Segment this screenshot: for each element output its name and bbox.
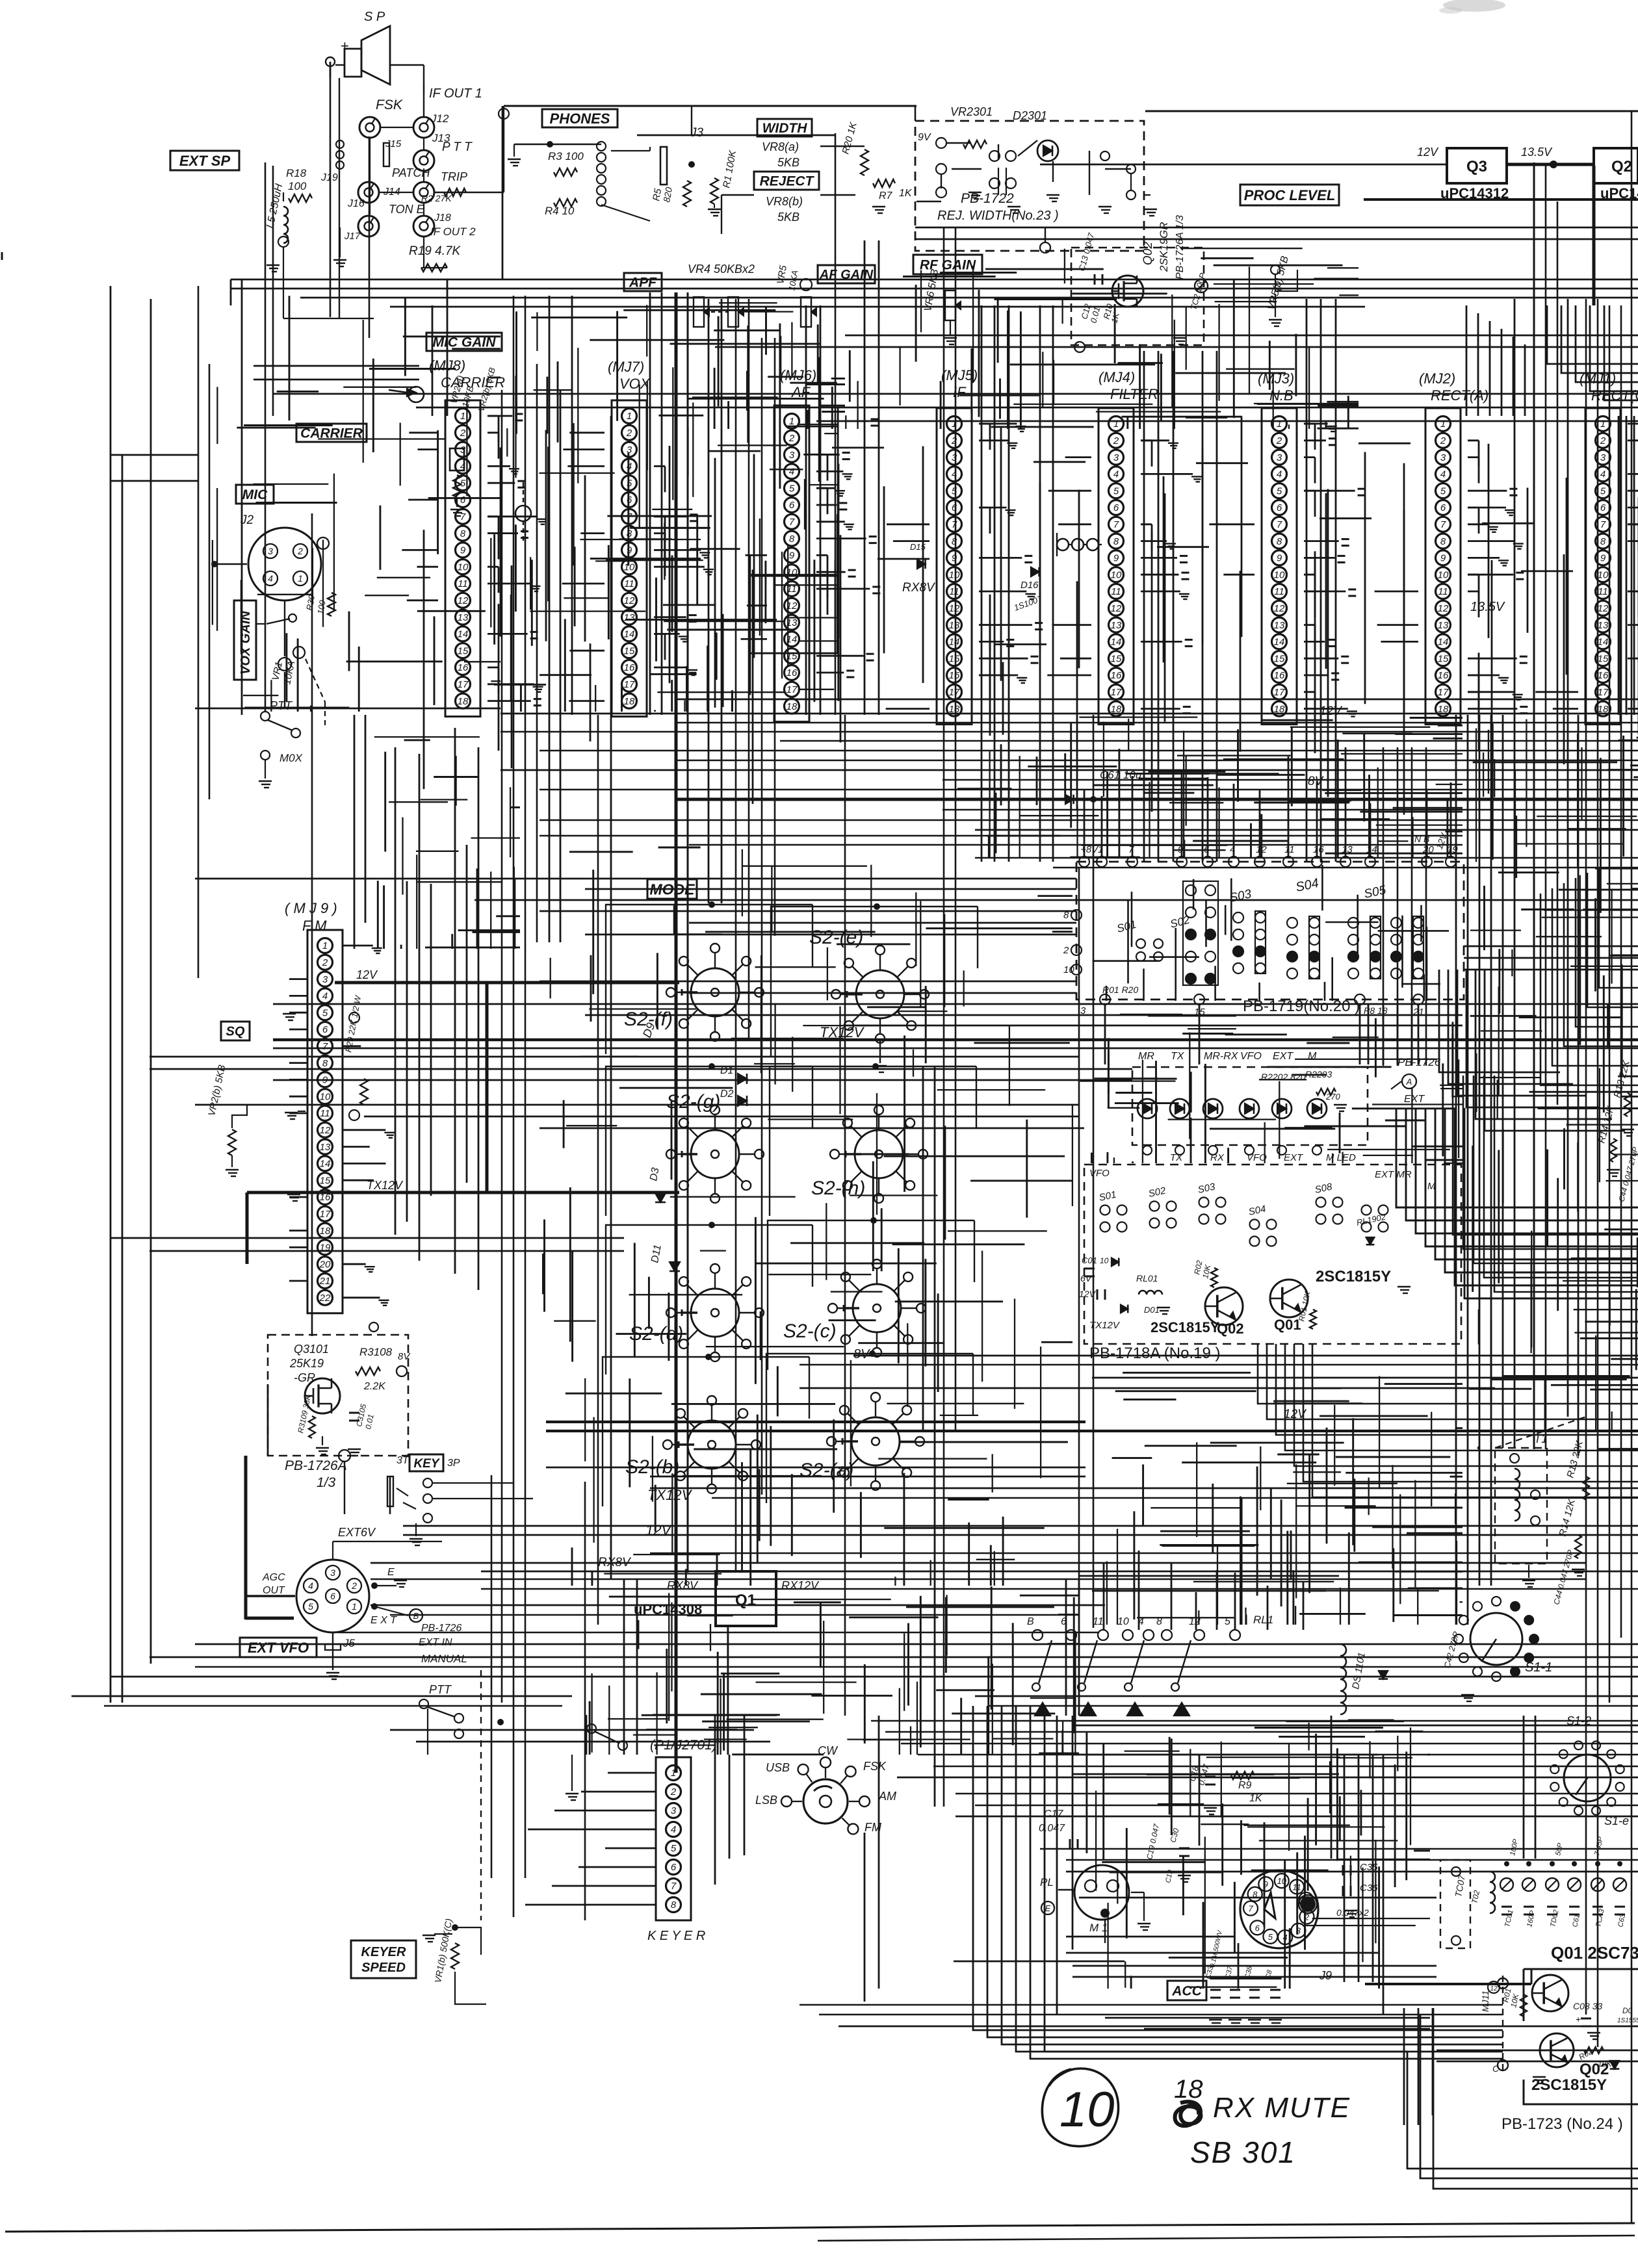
svg-text:F M: F M (302, 918, 327, 934)
svg-text:S P: S P (364, 10, 385, 24)
svg-text:E: E (1045, 1903, 1051, 1913)
svg-text:MIC: MIC (242, 487, 268, 502)
svg-text:2.2K: 2.2K (363, 1381, 386, 1392)
svg-text:6: 6 (330, 1591, 335, 1601)
svg-text:1K: 1K (899, 188, 913, 199)
svg-text:14: 14 (949, 637, 960, 648)
svg-text:8: 8 (627, 528, 632, 539)
svg-text:18: 18 (624, 696, 635, 707)
svg-text:11: 11 (1274, 586, 1284, 597)
svg-text:5: 5 (1600, 485, 1606, 496)
svg-text:12V: 12V (1079, 1289, 1097, 1299)
svg-text:4: 4 (1440, 469, 1446, 480)
svg-text:10: 10 (1598, 569, 1609, 580)
svg-text:10: 10 (1059, 2082, 1115, 2137)
svg-text:Q2: Q2 (1611, 158, 1632, 175)
svg-text:9: 9 (952, 553, 957, 564)
svg-text:PTT: PTT (429, 1683, 452, 1696)
svg-text:J9: J9 (1319, 1969, 1332, 1982)
svg-text:OUT: OUT (263, 1585, 285, 1596)
svg-text:M: M (1308, 1051, 1317, 1062)
svg-text:4: 4 (789, 467, 794, 478)
svg-text:C61 10u: C61 10u (1100, 769, 1142, 781)
svg-text:PB-1726A: PB-1726A (285, 1458, 347, 1473)
svg-text:12: 12 (1274, 603, 1285, 614)
svg-text:7: 7 (1277, 519, 1282, 530)
svg-text:1: 1 (460, 411, 465, 422)
svg-text:1: 1 (1600, 419, 1605, 430)
svg-text:6: 6 (460, 495, 466, 506)
svg-text:Q3: Q3 (1466, 158, 1487, 175)
svg-text:18: 18 (949, 704, 960, 715)
svg-text:5: 5 (308, 1601, 313, 1612)
svg-text:16: 16 (1274, 670, 1285, 681)
svg-text:11: 11 (458, 578, 468, 589)
svg-text:3: 3 (1277, 452, 1282, 463)
svg-text:SB 301: SB 301 (1190, 2135, 1296, 2169)
svg-text:E: E (387, 1567, 395, 1578)
svg-text:6: 6 (322, 1024, 328, 1035)
svg-text:15: 15 (1438, 653, 1449, 664)
svg-text:4: 4 (1600, 469, 1605, 480)
svg-text:C: C (1492, 2063, 1500, 2074)
svg-text:9: 9 (460, 545, 466, 556)
svg-text:3: 3 (627, 445, 632, 456)
svg-text:B: B (1027, 1616, 1034, 1627)
svg-text:11: 11 (949, 586, 959, 597)
svg-text:ACC: ACC (1171, 1984, 1202, 1999)
svg-text:13: 13 (624, 612, 635, 623)
svg-text:11: 11 (1284, 844, 1295, 855)
svg-text:PROC LEVEL: PROC LEVEL (1244, 187, 1336, 203)
svg-text:B: B (413, 1611, 419, 1621)
svg-text:3: 3 (1113, 452, 1119, 463)
svg-text:8: 8 (322, 1058, 328, 1069)
svg-text:10: 10 (1111, 569, 1122, 580)
svg-text:12V: 12V (645, 1522, 672, 1538)
svg-text:9: 9 (627, 545, 632, 556)
svg-text:1: 1 (298, 573, 303, 584)
svg-text:10: 10 (320, 1091, 331, 1102)
svg-text:M LED: M LED (1326, 1152, 1356, 1163)
svg-text:18: 18 (786, 701, 798, 712)
svg-text:KEYER: KEYER (361, 1945, 406, 1959)
svg-text:10: 10 (1117, 1616, 1129, 1627)
svg-text:3: 3 (671, 1805, 677, 1816)
svg-text:4: 4 (308, 1580, 313, 1591)
svg-text:3: 3 (789, 450, 795, 461)
svg-text:100: 100 (288, 180, 307, 192)
svg-text:4: 4 (322, 991, 328, 1002)
svg-text:10: 10 (1100, 1256, 1109, 1265)
svg-text:REJECT: REJECT (760, 174, 815, 189)
svg-text:13.5V: 13.5V (1521, 146, 1553, 159)
svg-text:1/3: 1/3 (317, 1475, 336, 1490)
svg-text:3: 3 (1440, 452, 1446, 463)
svg-text:RF GAIN: RF GAIN (920, 258, 976, 273)
svg-text:Q02: Q02 (1579, 2061, 1609, 2078)
svg-text:(MJ4): (MJ4) (1098, 369, 1135, 385)
svg-text:13: 13 (1111, 620, 1122, 631)
svg-text:17: 17 (320, 1209, 331, 1220)
svg-text:R7: R7 (879, 190, 893, 201)
svg-text:13: 13 (458, 612, 469, 623)
svg-text:Q01 2SC735Y: Q01 2SC735Y (1551, 1943, 1638, 1963)
svg-text:17: 17 (624, 679, 635, 690)
svg-text:2SC1815Y: 2SC1815Y (1531, 2076, 1607, 2094)
svg-text:14: 14 (1438, 637, 1449, 648)
svg-text:14: 14 (458, 629, 469, 640)
svg-text:6: 6 (789, 500, 795, 511)
svg-text:IF OUT 2: IF OUT 2 (430, 226, 476, 238)
svg-text:22: 22 (319, 1293, 331, 1304)
svg-text:6: 6 (627, 495, 632, 506)
svg-text:12: 12 (624, 595, 635, 606)
svg-text:J16: J16 (347, 198, 365, 209)
svg-text:KEY: KEY (413, 1457, 440, 1471)
svg-text:3: 3 (1600, 452, 1606, 463)
svg-text:TON E: TON E (389, 203, 425, 216)
svg-text:5: 5 (460, 478, 466, 489)
svg-text:1: 1 (352, 1601, 357, 1612)
svg-text:AGC: AGC (262, 1572, 285, 1583)
svg-text:11: 11 (320, 1108, 330, 1119)
svg-text:1: 1 (952, 419, 957, 430)
svg-text:AM: AM (878, 1790, 896, 1803)
svg-text:11: 11 (1598, 586, 1608, 597)
svg-text:WIDTH: WIDTH (762, 121, 808, 136)
svg-text:11: 11 (1111, 586, 1121, 597)
svg-text:PATCH: PATCH (392, 166, 430, 179)
svg-text:1: 1 (322, 940, 328, 951)
svg-text:12: 12 (320, 1125, 331, 1136)
svg-text:9: 9 (789, 550, 795, 561)
svg-text:IF: IF (953, 384, 967, 400)
svg-text:J19: J19 (320, 172, 338, 183)
svg-text:RX12V: RX12V (781, 1579, 820, 1592)
svg-text:TX: TX (1170, 1152, 1183, 1163)
svg-text:2: 2 (1600, 435, 1606, 446)
svg-text:2: 2 (670, 1786, 677, 1798)
svg-text:A: A (1406, 1077, 1412, 1087)
svg-text:D1: D1 (720, 1065, 733, 1076)
svg-text:REJ. WIDTH(No.23 ): REJ. WIDTH(No.23 ) (937, 209, 1059, 223)
svg-text:1: 1 (1277, 419, 1282, 430)
svg-text:5: 5 (1277, 485, 1282, 496)
svg-text:12: 12 (1438, 603, 1449, 614)
svg-text:12: 12 (1598, 603, 1609, 614)
svg-text:8V: 8V (853, 1347, 870, 1361)
svg-text:3: 3 (330, 1567, 335, 1578)
svg-text:7: 7 (1113, 519, 1119, 530)
svg-text:4: 4 (1277, 469, 1282, 480)
svg-text:RECT(A): RECT(A) (1431, 387, 1488, 404)
svg-text:6: 6 (1113, 502, 1119, 513)
svg-text:D3: D3 (648, 1167, 661, 1182)
svg-text:17: 17 (786, 684, 798, 695)
svg-text:D01: D01 (1144, 1305, 1160, 1315)
svg-text:9: 9 (1277, 553, 1282, 564)
svg-text:PB-1726: PB-1726 (421, 1623, 461, 1634)
svg-text:MJ11: MJ11 (1480, 1991, 1490, 2012)
svg-text:(P1/J2701): (P1/J2701) (1009, 1754, 1013, 1755)
svg-text:9: 9 (1600, 553, 1606, 564)
svg-text:C01: C01 (1082, 1256, 1097, 1265)
svg-text:0.047: 0.047 (1039, 1823, 1065, 1834)
svg-text:270: 270 (1325, 1092, 1340, 1102)
svg-text:J17: J17 (344, 231, 361, 242)
svg-text:P T T: P T T (442, 140, 473, 154)
svg-text:5: 5 (671, 1843, 677, 1854)
svg-text:12: 12 (949, 603, 960, 614)
svg-text:R3 100: R3 100 (548, 150, 584, 162)
svg-text:6: 6 (1600, 502, 1606, 513)
svg-text:R01 R20: R01 R20 (1102, 985, 1138, 995)
svg-text:IF OUT 1: IF OUT 1 (429, 86, 482, 101)
svg-text:R4 10: R4 10 (545, 205, 575, 217)
svg-text:(MJ2): (MJ2) (1419, 370, 1455, 387)
svg-text:5: 5 (1268, 1932, 1273, 1942)
svg-text:18: 18 (320, 1226, 331, 1237)
svg-text:PB-1718A (No.19 ): PB-1718A (No.19 ) (1089, 1345, 1220, 1362)
svg-text:2: 2 (460, 428, 466, 439)
svg-text:5: 5 (789, 483, 795, 494)
svg-text:RX: RX (1210, 1152, 1225, 1163)
svg-text:(MJ7): (MJ7) (608, 359, 644, 375)
svg-text:D2301: D2301 (1013, 109, 1047, 122)
svg-text:TX: TX (1171, 1051, 1185, 1062)
svg-text:8: 8 (789, 534, 795, 545)
svg-text:SQ: SQ (226, 1025, 245, 1039)
svg-text:VOX: VOX (619, 376, 651, 392)
svg-text:4: 4 (268, 573, 273, 584)
svg-text:MR-RX: MR-RX (1204, 1051, 1239, 1062)
svg-text:21: 21 (319, 1276, 331, 1287)
svg-text:SPEED: SPEED (361, 1961, 406, 1975)
svg-text:J12: J12 (430, 112, 449, 125)
svg-text:5: 5 (627, 478, 632, 489)
svg-text:PB-1723 (No.24 ): PB-1723 (No.24 ) (1501, 2115, 1623, 2133)
svg-text:PL: PL (1040, 1876, 1054, 1888)
svg-text:5KB: 5KB (777, 211, 799, 224)
svg-text:11: 11 (1093, 1616, 1104, 1627)
svg-text:E X T: E X T (370, 1615, 397, 1626)
svg-text:15: 15 (1111, 653, 1122, 664)
svg-text:15: 15 (320, 1175, 331, 1186)
svg-text:5KB: 5KB (777, 156, 799, 169)
svg-text:PHONES: PHONES (550, 110, 610, 127)
svg-text:5: 5 (1440, 485, 1446, 496)
svg-text:3: 3 (460, 445, 466, 456)
svg-text:TRIP: TRIP (441, 170, 467, 183)
svg-text:Q1: Q1 (735, 1591, 756, 1609)
svg-text:18: 18 (1174, 2075, 1203, 2104)
svg-text:VFO: VFO (1247, 1152, 1267, 1163)
svg-text:2: 2 (351, 1580, 357, 1591)
svg-text:18: 18 (1274, 704, 1285, 715)
svg-text:8V: 8V (398, 1351, 411, 1362)
svg-text:3: 3 (322, 974, 328, 985)
svg-text:7: 7 (671, 1881, 677, 1892)
svg-text:( M J 9 ): ( M J 9 ) (285, 900, 337, 916)
svg-text:7: 7 (1440, 519, 1446, 530)
svg-text:EXT6V: EXT6V (338, 1526, 376, 1539)
svg-text:17: 17 (1598, 687, 1609, 698)
svg-text:16: 16 (624, 662, 635, 673)
svg-text:17: 17 (458, 679, 469, 690)
svg-text:16: 16 (458, 662, 469, 673)
svg-text:RL01: RL01 (1136, 1273, 1158, 1283)
svg-text:7: 7 (789, 517, 795, 528)
svg-text:6: 6 (671, 1862, 677, 1873)
svg-text:16: 16 (1438, 670, 1449, 681)
svg-text:18: 18 (1438, 704, 1449, 715)
svg-text:3: 3 (952, 452, 957, 463)
svg-text:6: 6 (1255, 1923, 1260, 1933)
svg-text:4: 4 (952, 469, 957, 480)
svg-text:PTT: PTT (270, 699, 293, 712)
svg-text:15: 15 (949, 653, 960, 664)
svg-text:3P: 3P (447, 1458, 460, 1469)
svg-text:17: 17 (949, 687, 960, 698)
svg-text:12V: 12V (1417, 146, 1439, 159)
svg-text:2SC1815Y: 2SC1815Y (1316, 1268, 1391, 1285)
svg-text:8: 8 (1440, 536, 1446, 547)
svg-text:S1-1: S1-1 (1525, 1660, 1552, 1675)
svg-text:FSK: FSK (376, 97, 403, 112)
svg-text:Q02: Q02 (1217, 1321, 1244, 1337)
svg-text:T1: T1 (1534, 1432, 1548, 1445)
svg-text:Q3101: Q3101 (294, 1343, 329, 1356)
svg-text:8: 8 (671, 1900, 677, 1911)
svg-text:2: 2 (297, 546, 303, 556)
svg-text:12: 12 (1490, 1985, 1498, 1992)
svg-text:EXT: EXT (1284, 1152, 1304, 1163)
svg-text:16: 16 (1111, 670, 1122, 681)
svg-text:VR8(a): VR8(a) (762, 140, 799, 153)
svg-text:15: 15 (624, 645, 635, 656)
svg-text:uPC14312: uPC14312 (1440, 185, 1509, 201)
svg-text:VFO: VFO (1089, 1168, 1110, 1179)
svg-text:1: 1 (1113, 419, 1119, 430)
svg-text:2SK19GR: 2SK19GR (1158, 222, 1170, 272)
svg-text:17: 17 (1274, 687, 1285, 698)
svg-text:EXT: EXT (1404, 1094, 1425, 1105)
svg-text:+: + (1576, 2014, 1581, 2024)
svg-text:5: 5 (1113, 485, 1119, 496)
svg-text:PB-1726A 1/3: PB-1726A 1/3 (1175, 215, 1186, 279)
svg-text:14: 14 (1111, 637, 1122, 648)
svg-text:13: 13 (1438, 620, 1449, 631)
svg-text:9V: 9V (918, 132, 931, 143)
svg-text:C08 33: C08 33 (1573, 2001, 1602, 2011)
svg-text:MANUAL: MANUAL (421, 1653, 467, 1665)
svg-text:K E Y E R: K E Y E R (647, 1929, 705, 1943)
svg-text:6: 6 (952, 502, 957, 513)
svg-text:7: 7 (1600, 519, 1606, 530)
svg-text:2SC1815Y: 2SC1815Y (1150, 1319, 1220, 1335)
svg-text:3: 3 (268, 546, 273, 556)
svg-text:2: 2 (1276, 435, 1282, 446)
svg-text:Q02: Q02 (1141, 242, 1155, 265)
svg-text:(MJ6): (MJ6) (780, 367, 816, 383)
svg-text:8: 8 (460, 528, 466, 539)
svg-text:16: 16 (1313, 844, 1324, 855)
svg-text:18: 18 (458, 696, 469, 707)
svg-text:FILTER: FILTER (1110, 386, 1158, 402)
svg-text:8: 8 (1277, 536, 1282, 547)
svg-text:R19 4.7K: R19 4.7K (409, 244, 461, 258)
svg-text:MR: MR (1138, 1051, 1154, 1062)
svg-text:PB-1722: PB-1722 (961, 191, 1014, 206)
svg-text:8: 8 (1113, 536, 1119, 547)
svg-text:C17: C17 (1044, 1809, 1063, 1820)
svg-text:-GR: -GR (294, 1371, 315, 1384)
svg-text:EXT IN: EXT IN (419, 1637, 452, 1648)
svg-text:14: 14 (1274, 637, 1285, 648)
svg-text:TX12V: TX12V (647, 1487, 693, 1503)
svg-text:16: 16 (949, 670, 960, 681)
svg-text:D2: D2 (720, 1089, 734, 1100)
svg-text:2: 2 (322, 957, 328, 968)
svg-text:2: 2 (1063, 945, 1069, 956)
svg-text:10: 10 (624, 561, 635, 573)
svg-text:TX12V: TX12V (1089, 1320, 1121, 1331)
svg-text:10: 10 (1063, 964, 1074, 975)
svg-text:6V: 6V (1080, 1273, 1093, 1283)
svg-text:7: 7 (952, 519, 957, 530)
svg-text:17: 17 (1111, 687, 1122, 698)
svg-text:6: 6 (1440, 502, 1446, 513)
svg-text:14: 14 (320, 1159, 331, 1170)
svg-text:13: 13 (1598, 620, 1609, 631)
svg-text:J5: J5 (343, 1637, 356, 1649)
svg-text:EXT VFO: EXT VFO (248, 1640, 309, 1656)
svg-text:5: 5 (322, 1007, 328, 1018)
svg-text:2: 2 (788, 433, 795, 444)
svg-text:uPC1430: uPC1430 (1600, 185, 1638, 201)
svg-text:11: 11 (1438, 586, 1448, 597)
svg-text:13: 13 (320, 1142, 331, 1153)
svg-text:14: 14 (1598, 637, 1609, 648)
svg-text:EXT: EXT (1273, 1051, 1293, 1062)
svg-text:R3108: R3108 (359, 1346, 393, 1358)
svg-text:RX8V: RX8V (667, 1579, 699, 1592)
svg-text:VFO: VFO (1240, 1051, 1262, 1062)
svg-text:12V: 12V (1284, 1408, 1307, 1421)
svg-text:J15: J15 (385, 138, 402, 149)
svg-text:D16: D16 (1020, 580, 1039, 591)
svg-text:15: 15 (1598, 653, 1609, 664)
svg-text:1: 1 (671, 1768, 676, 1779)
svg-text:7: 7 (1248, 1904, 1253, 1914)
svg-text:10: 10 (949, 569, 960, 580)
svg-text:4: 4 (671, 1824, 676, 1835)
svg-text:3T: 3T (396, 1455, 409, 1466)
svg-text:8: 8 (1600, 536, 1606, 547)
svg-text:11: 11 (624, 578, 634, 589)
svg-text:8: 8 (952, 536, 957, 547)
svg-text:RX MUTE: RX MUTE (1213, 2092, 1351, 2124)
svg-text:J18: J18 (434, 213, 451, 224)
svg-text:18: 18 (1111, 704, 1122, 715)
svg-text:25K19: 25K19 (289, 1357, 324, 1370)
svg-text:APF: APF (629, 276, 657, 290)
svg-text:4: 4 (1113, 469, 1119, 480)
svg-text:S2-(g): S2-(g) (666, 1091, 720, 1113)
svg-text:2: 2 (1113, 435, 1119, 446)
svg-text:5: 5 (952, 485, 957, 496)
